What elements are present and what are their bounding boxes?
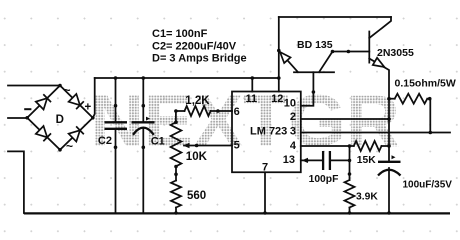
svg-text:LM 723: LM 723	[250, 125, 287, 137]
svg-text:15K: 15K	[357, 155, 376, 166]
svg-text:10: 10	[284, 98, 296, 110]
svg-text:11: 11	[245, 93, 257, 105]
svg-text:100pF: 100pF	[309, 174, 339, 185]
svg-text:10K: 10K	[186, 151, 208, 163]
svg-text:100uF/35V: 100uF/35V	[403, 180, 453, 191]
svg-text:C2: C2	[98, 135, 112, 147]
svg-text:2: 2	[290, 111, 296, 123]
svg-text:560: 560	[187, 190, 206, 202]
svg-text:C1= 100nF: C1= 100nF	[152, 28, 208, 40]
svg-text:C2= 2200uF/40V: C2= 2200uF/40V	[152, 40, 237, 52]
svg-text:3.9K: 3.9K	[356, 192, 378, 203]
svg-text:2N3055: 2N3055	[377, 47, 414, 59]
svg-text:7: 7	[262, 162, 268, 174]
svg-text:~: ~	[66, 139, 73, 153]
svg-text:13: 13	[283, 154, 295, 166]
svg-text:4: 4	[290, 140, 297, 152]
svg-text:BD 135: BD 135	[297, 39, 333, 51]
svg-text:6: 6	[234, 106, 240, 118]
svg-text:1,2K: 1,2K	[185, 95, 210, 107]
svg-text:0.15ohm/5W: 0.15ohm/5W	[395, 78, 456, 90]
svg-text:~: ~	[64, 83, 71, 97]
svg-text:+: +	[85, 101, 92, 113]
svg-text:C1: C1	[151, 136, 165, 148]
svg-text:D: D	[56, 114, 64, 126]
svg-text:12: 12	[271, 93, 283, 105]
svg-text:5: 5	[234, 139, 240, 151]
svg-text:3: 3	[290, 125, 296, 137]
svg-text:D= 3 Amps Bridge: D= 3 Amps Bridge	[152, 53, 247, 65]
